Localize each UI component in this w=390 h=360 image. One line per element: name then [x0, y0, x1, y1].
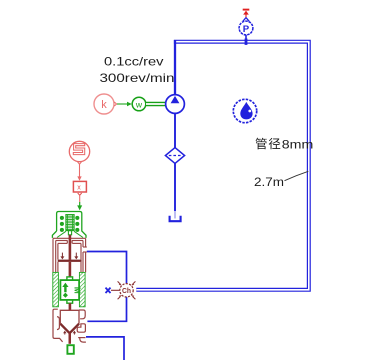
filter diamond: [165, 148, 184, 164]
pump U2: [166, 95, 185, 114]
pressure gauge U3: [239, 18, 253, 41]
poppet cup: [60, 310, 79, 323]
svg-text:P: P: [243, 24, 250, 35]
svg-text:2.7m: 2.7m: [254, 175, 284, 189]
wire: pump outlet up: [174, 40, 176, 96]
tank port stub: [174, 211, 176, 219]
tank: [170, 216, 181, 221]
stem to poppet: [69, 303, 72, 310]
signal source S1 (red circle with square-wave S): [69, 141, 89, 164]
left wall profile: [53, 309, 63, 342]
gauge red flag: [243, 10, 250, 18]
speed source w: [132, 97, 146, 111]
wire1: valve upper port to Ch top: [87, 252, 127, 285]
spool bar: [58, 260, 82, 262]
right dish: [78, 337, 85, 339]
Ch inward arrows: [118, 281, 136, 299]
wire3: valve lower port down right: [86, 337, 124, 360]
bottom port green: [67, 345, 73, 354]
poppet V: [60, 324, 79, 334]
wire2: Ch bottom to valve mid port: [87, 296, 126, 321]
pilot valve body (dark red): [53, 238, 87, 272]
solenoid housing: [52, 212, 86, 238]
droplet: [240, 102, 252, 120]
hatched guide strips: [53, 272, 59, 306]
pilot spool arrows: [60, 253, 78, 260]
constant source k: [94, 94, 114, 114]
right boot: [77, 324, 85, 332]
solenoid coil dots: [60, 216, 79, 232]
wire: main hydraulic pipe loop: [136, 42, 308, 290]
svg-text:Ch: Ch: [122, 286, 131, 295]
gain block: [73, 181, 86, 192]
poppet stem: [69, 333, 72, 344]
pilot stem: [69, 235, 72, 260]
junction node: [245, 39, 248, 45]
shaft double line w to pump: [146, 102, 166, 107]
right boss: [79, 310, 85, 319]
svg-text:0.1cc/rev: 0.1cc/rev: [104, 55, 164, 69]
svg-text:k: k: [101, 99, 107, 111]
mass block: [67, 277, 73, 280]
chamber Ch: [120, 284, 133, 297]
plugged port X: [111, 289, 120, 291]
signal wire gain to solenoid: [79, 195, 81, 202]
svg-text:w: w: [135, 99, 143, 109]
svg-text:8mm: 8mm: [282, 137, 314, 151]
poppet arrows: [63, 331, 76, 335]
wire: filter to tank: [174, 163, 176, 211]
signal wire S1 to gain: [79, 164, 81, 178]
signal arrow k to w: [117, 103, 129, 105]
svg-text:x: x: [77, 185, 81, 192]
wire: pump to filter diamond: [174, 113, 176, 148]
fluid properties icon: [233, 99, 256, 122]
label 管径8mm (CJK drawn as paths): [256, 138, 281, 150]
svg-text:300rev/min: 300rev/min: [100, 71, 175, 85]
leader line: [285, 171, 309, 180]
svg-text:M: M: [73, 287, 82, 294]
solenoid armature: [57, 215, 83, 238]
